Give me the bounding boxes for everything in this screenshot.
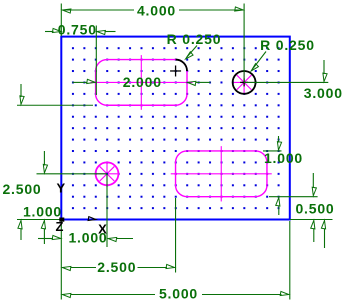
- svg-text:2.000: 2.000: [123, 74, 162, 90]
- dimension 2.000 (slot S1 length): [72, 81, 210, 83]
- slot S1 vertical centerline: [140, 55, 142, 110]
- circle C1 center mark: [240, 78, 248, 86]
- slot S2 horizontal centerline: [171, 173, 272, 175]
- svg-text:1.000: 1.000: [264, 150, 303, 166]
- svg-text:2.500: 2.500: [2, 181, 41, 197]
- svg-text:3.000: 3.000: [304, 85, 343, 101]
- dimension 4.000 (top): [61, 4, 244, 83]
- part outline rectangle: [61, 37, 289, 220]
- dimension 0.500 (bottom right): [312, 173, 315, 242]
- origin marker: [59, 218, 64, 222]
- slot S2 outline: [176, 151, 267, 197]
- svg-text:0.500: 0.500: [295, 200, 334, 216]
- slot S1 arc center mark: [170, 65, 181, 76]
- svg-text:4.000: 4.000: [137, 3, 176, 19]
- leader R 0.250 (circle C1): [252, 52, 266, 70]
- svg-text:1.000: 1.000: [23, 203, 62, 219]
- svg-text:5.000: 5.000: [159, 285, 198, 301]
- svg-text:X: X: [98, 222, 107, 237]
- slot S2 vertical centerline: [220, 146, 222, 201]
- dimension 3.000 (right side): [244, 60, 332, 248]
- slot S1 top-right corner arc R0.250 (selected, black): [176, 60, 187, 71]
- dimension 0.750: [45, 26, 116, 96]
- dimension 1.000 (bottom, circle C2 offset): [38, 174, 133, 247]
- circle C1 outline R0.250: [233, 71, 256, 94]
- dimension 1.000 (left side, circle C2): [37, 151, 108, 244]
- svg-text:2.500: 2.500: [97, 259, 136, 275]
- axis X arrow: [88, 217, 96, 221]
- slot S1 horizontal centerline: [91, 81, 193, 83]
- dimension 2.500 (bottom): [71, 198, 176, 273]
- slot S1 outline: [96, 60, 187, 106]
- leader R 0.250 (slot S1 corner arc): [187, 46, 197, 58]
- svg-text:Z: Z: [56, 219, 64, 234]
- circle C2 outline: [96, 162, 119, 185]
- circle C2 center point: [106, 173, 108, 175]
- svg-text:R 0.250: R 0.250: [260, 37, 315, 53]
- circle C1 spokes: [234, 72, 255, 93]
- dimension 1.000 (slot S2 height): [263, 136, 318, 215]
- svg-text:R 0.250: R 0.250: [167, 31, 222, 47]
- dimension 5.000 (bottom): [61, 220, 289, 300]
- svg-text:Y: Y: [56, 181, 65, 196]
- circle C2 spokes: [97, 163, 118, 184]
- svg-text:0.750: 0.750: [58, 22, 97, 38]
- dimension 2.500 (left side): [17, 84, 93, 240]
